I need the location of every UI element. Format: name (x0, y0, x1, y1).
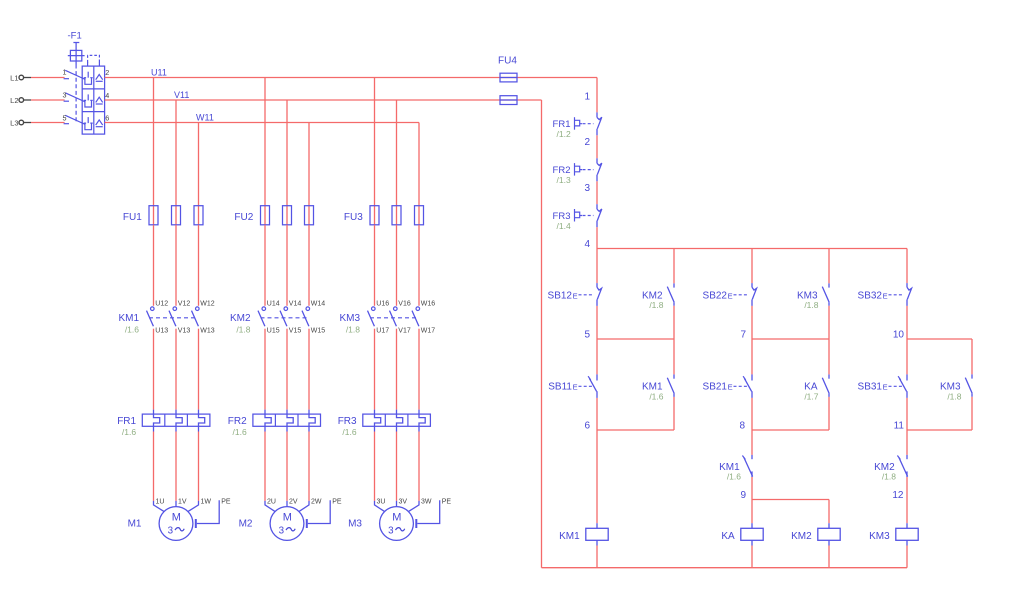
svg-text:4: 4 (584, 239, 590, 250)
svg-text:/1.8: /1.8 (947, 391, 961, 401)
coil KA (721, 523, 763, 545)
wire (971, 397, 973, 430)
svg-text:11: 11 (894, 420, 905, 431)
svg-text:FU1: FU1 (123, 212, 142, 223)
svg-text:FR2: FR2 (228, 416, 247, 427)
wire main control line (596, 398, 598, 523)
wire (751, 398, 753, 455)
wire (971, 339, 973, 374)
svg-text:FU3: FU3 (344, 212, 363, 223)
svg-text:U17: U17 (376, 328, 389, 335)
svg-text:7: 7 (740, 329, 746, 340)
wire (906, 477, 908, 523)
wire drop group3 phase3 (418, 123, 420, 206)
svg-text:1W: 1W (201, 499, 212, 506)
terminal L1 (10, 73, 31, 82)
svg-text:/1.6: /1.6 (727, 472, 741, 482)
svg-text:6: 6 (584, 420, 590, 431)
svg-text:/1.8: /1.8 (346, 324, 360, 334)
wire (153, 329, 155, 410)
wire control return (541, 100, 543, 568)
thermal relay FR3 heaters (338, 410, 431, 438)
contactor KM2 main contacts (230, 301, 325, 335)
svg-text:M: M (283, 512, 292, 524)
wire W11 bus (105, 122, 419, 124)
wire to node 1 (596, 78, 598, 113)
svg-text:FU2: FU2 (234, 212, 253, 223)
wire (308, 225, 310, 306)
wire (286, 225, 288, 306)
wire L2 to breaker (31, 99, 65, 101)
svg-text:/1.6: /1.6 (125, 324, 139, 334)
contactor KM1 main contacts (118, 301, 214, 335)
wire coil to bus (906, 546, 908, 568)
svg-text:FU4: FU4 (498, 56, 517, 67)
fuse FU4 (498, 56, 517, 105)
node 6 label (584, 420, 590, 431)
svg-text:10: 10 (893, 329, 905, 340)
svg-text:2V: 2V (289, 499, 298, 506)
svg-text:1: 1 (63, 67, 67, 76)
wire (828, 500, 830, 524)
wire (153, 225, 155, 306)
pushbutton SB11 (548, 374, 597, 398)
svg-text:3: 3 (63, 90, 67, 99)
wire (418, 329, 420, 410)
svg-text:/1.8: /1.8 (649, 300, 663, 310)
wire node 8 (752, 429, 829, 431)
wire coil to bus (828, 546, 830, 568)
wire main control line (596, 227, 598, 283)
svg-text:-F1: -F1 (68, 31, 82, 42)
svg-text:1V: 1V (178, 499, 187, 506)
svg-text:U16: U16 (376, 301, 389, 308)
svg-text:W17: W17 (421, 328, 436, 335)
svg-text:6: 6 (105, 114, 109, 123)
svg-text:/1.6: /1.6 (342, 427, 356, 437)
svg-text:W15: W15 (311, 328, 326, 335)
wire bottom bus (542, 567, 908, 569)
wire (175, 225, 177, 306)
svg-text:U11: U11 (151, 68, 167, 78)
wire node 4 bus (597, 248, 907, 250)
svg-text:KM1: KM1 (559, 531, 580, 542)
wire drop group2 phase2 (286, 100, 288, 206)
wire (153, 432, 155, 501)
wire (396, 329, 398, 410)
wire (308, 432, 310, 501)
node W11 label (196, 113, 214, 123)
svg-text:M3: M3 (348, 519, 362, 530)
wire (396, 225, 398, 306)
svg-text:V11: V11 (174, 90, 189, 100)
contact FR1 (thermal trip) (553, 112, 602, 139)
coil KM2 (791, 523, 840, 545)
node 8 label (739, 420, 745, 431)
svg-text:8: 8 (739, 420, 745, 431)
wire node 11 (907, 429, 972, 431)
contact KM1 NC interlock (719, 455, 752, 482)
wire L1 to breaker (31, 77, 65, 79)
svg-text:KM2: KM2 (230, 313, 251, 324)
wire main control line (596, 181, 598, 204)
svg-text:3: 3 (584, 183, 590, 194)
svg-text:W11: W11 (196, 113, 214, 123)
wire coil to bus (751, 546, 753, 568)
svg-text:1: 1 (584, 92, 590, 103)
svg-text:5: 5 (584, 329, 590, 340)
terminal L3 (10, 118, 31, 127)
svg-text:4: 4 (105, 91, 109, 100)
svg-text:2: 2 (584, 137, 590, 148)
svg-text:V13: V13 (178, 328, 191, 335)
svg-text:KM2: KM2 (791, 531, 812, 542)
svg-text:9: 9 (740, 490, 746, 501)
wire node 7 (752, 338, 829, 340)
circuit breaker F1 (63, 31, 110, 135)
svg-text:/1.4: /1.4 (557, 221, 571, 231)
svg-text:V16: V16 (398, 301, 411, 308)
svg-text:FR1: FR1 (117, 416, 136, 427)
thermal relay FR2 heaters (228, 410, 321, 438)
svg-text:2: 2 (105, 68, 109, 77)
svg-text:W16: W16 (421, 301, 436, 308)
wire (418, 225, 420, 306)
svg-text:2U: 2U (267, 499, 276, 506)
node 10 label (893, 329, 905, 340)
contact KM2 aux NO (642, 283, 674, 310)
wire (374, 225, 376, 306)
wire (308, 329, 310, 410)
wire (264, 225, 266, 306)
wire (828, 249, 830, 284)
svg-text:SB31: SB31 (858, 381, 883, 392)
svg-text:KA: KA (721, 531, 735, 542)
wire (906, 398, 908, 455)
svg-text:PE: PE (442, 499, 452, 506)
svg-text:FR3: FR3 (338, 416, 357, 427)
wire (673, 306, 675, 339)
svg-text:E: E (573, 292, 578, 301)
svg-text:SB12: SB12 (548, 291, 573, 302)
svg-text:/1.8: /1.8 (882, 472, 896, 482)
wire node 10 (907, 338, 972, 340)
wire drop group1 phase3 (198, 123, 200, 206)
svg-text:3V: 3V (399, 499, 408, 506)
wire (828, 339, 830, 374)
wire (828, 397, 830, 430)
svg-text:V14: V14 (289, 301, 302, 308)
wire (418, 432, 420, 501)
node U11 label (151, 68, 167, 78)
svg-text:M: M (392, 512, 401, 524)
coil KM3 (869, 523, 918, 545)
pushbutton SB12 (548, 283, 602, 306)
svg-text:KM3: KM3 (339, 313, 360, 324)
wire (264, 432, 266, 501)
wire (751, 306, 753, 375)
svg-text:1U: 1U (156, 499, 165, 506)
svg-text:U15: U15 (267, 328, 280, 335)
svg-text:E: E (728, 292, 733, 301)
svg-text:E: E (883, 292, 888, 301)
node 5 label (584, 329, 590, 340)
node V11 label (174, 90, 189, 100)
wire (751, 249, 753, 284)
contact KA aux NO (804, 374, 829, 401)
svg-text:PE: PE (221, 499, 231, 506)
fuse FU3 (344, 206, 424, 225)
svg-text:3W: 3W (421, 499, 432, 506)
wire main control line (596, 306, 598, 375)
wire L3 to breaker (31, 122, 65, 124)
svg-text:SB21: SB21 (703, 381, 728, 392)
contact FR2 (thermal trip) (553, 158, 602, 185)
svg-text:3: 3 (388, 525, 394, 536)
node 2 label (584, 137, 590, 148)
svg-text:/1.2: /1.2 (557, 129, 571, 139)
coil KM1 (559, 523, 608, 545)
wire (673, 249, 675, 284)
contact FR3 (thermal trip) (553, 204, 602, 231)
motor M2 (239, 499, 342, 541)
wire (906, 306, 908, 375)
node 7 label (740, 329, 746, 340)
wire (175, 432, 177, 501)
wire drop group2 phase3 (308, 123, 310, 206)
pushbutton SB31 (858, 374, 907, 398)
svg-text:M1: M1 (128, 519, 142, 530)
wire (374, 432, 376, 501)
wire node 6 (597, 429, 674, 431)
wire coil to bus (596, 546, 598, 568)
motor M1 (128, 499, 231, 541)
svg-text:PE: PE (332, 499, 342, 506)
motor M3 (348, 499, 451, 541)
svg-text:SB32: SB32 (858, 291, 883, 302)
svg-text:/1.8: /1.8 (804, 300, 818, 310)
svg-text:M: M (172, 512, 181, 524)
pushbutton SB32 (858, 283, 912, 306)
svg-text:KM3: KM3 (869, 531, 890, 542)
svg-text:/1.7: /1.7 (804, 391, 818, 401)
wire main control line (596, 135, 598, 158)
svg-text:SB11: SB11 (548, 381, 572, 392)
svg-text:M2: M2 (239, 519, 253, 530)
wire (751, 500, 753, 524)
svg-text:L3: L3 (10, 118, 18, 127)
wire (198, 432, 200, 501)
wire drop group1 phase1 (153, 78, 155, 206)
svg-text:2W: 2W (311, 499, 322, 506)
wire (828, 306, 830, 339)
thermal relay FR1 heaters (117, 410, 210, 438)
pushbutton SB21 (703, 374, 752, 398)
fuse FU2 (234, 206, 313, 225)
wire (286, 432, 288, 501)
wire drop group3 phase2 (396, 100, 398, 206)
wire (374, 329, 376, 410)
wire (264, 329, 266, 410)
wire (175, 329, 177, 410)
svg-text:3: 3 (168, 525, 174, 536)
svg-text:V12: V12 (178, 301, 191, 308)
contact KM1 aux NO (642, 374, 674, 401)
node 12 label (892, 490, 904, 501)
wire drop group1 phase2 (175, 100, 177, 206)
svg-text:E: E (573, 382, 578, 391)
node 4 label (584, 239, 590, 250)
wire V11 bus (105, 99, 542, 101)
svg-text:3: 3 (279, 525, 285, 536)
wire node 9 (752, 499, 829, 501)
wire (751, 477, 753, 500)
svg-text:SB22: SB22 (703, 291, 728, 302)
wire (906, 249, 908, 284)
svg-text:W14: W14 (311, 301, 326, 308)
node 11 label (894, 420, 905, 431)
svg-text:U12: U12 (155, 301, 168, 308)
contact KM2 NC interlock (874, 455, 907, 482)
svg-text:V17: V17 (398, 328, 411, 335)
svg-text:12: 12 (892, 490, 904, 501)
wire drop group2 phase1 (264, 78, 266, 206)
svg-text:5: 5 (63, 114, 67, 123)
wire (673, 339, 675, 374)
svg-text:/1.6: /1.6 (122, 427, 136, 437)
svg-text:V15: V15 (289, 328, 302, 335)
svg-text:E: E (883, 382, 888, 391)
svg-text:/1.6: /1.6 (649, 391, 663, 401)
contactor KM3 main contacts (339, 301, 435, 335)
svg-text:U14: U14 (267, 301, 280, 308)
svg-text:KM1: KM1 (118, 313, 139, 324)
svg-text:/1.6: /1.6 (233, 427, 247, 437)
svg-text:/1.3: /1.3 (557, 175, 571, 185)
svg-text:U13: U13 (155, 328, 168, 335)
contact KM3 aux NO (right) (940, 374, 972, 401)
wire (286, 329, 288, 410)
svg-text:/1.8: /1.8 (236, 324, 250, 334)
svg-text:W12: W12 (200, 301, 215, 308)
contact KM3 aux NO (col2) (797, 283, 829, 310)
wire (673, 397, 675, 430)
wire U11 bus (105, 77, 597, 79)
node 1 label (584, 92, 590, 103)
svg-text:E: E (728, 382, 733, 391)
svg-text:L1: L1 (10, 73, 18, 82)
wire (198, 225, 200, 306)
wire drop group3 phase1 (374, 78, 376, 206)
pushbutton SB22 (703, 283, 757, 306)
node 9 label (740, 490, 746, 501)
fuse FU1 (123, 206, 203, 225)
wire (396, 432, 398, 501)
svg-text:3U: 3U (377, 499, 386, 506)
svg-text:L2: L2 (10, 96, 18, 105)
terminal L2 (10, 96, 31, 105)
wire node 5 (597, 338, 674, 340)
node 3 label (584, 183, 590, 194)
wire (198, 329, 200, 410)
svg-text:W13: W13 (200, 328, 215, 335)
